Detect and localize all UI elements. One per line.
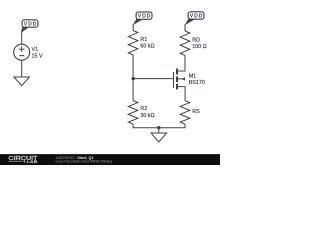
source stub	[178, 86, 186, 88]
wire ground stub	[158, 128, 160, 133]
svg-text:RS: RS	[192, 109, 200, 115]
svg-text:100 Ω: 100 Ω	[192, 44, 207, 50]
channel segment middle	[176, 76, 178, 82]
svg-text:30 kΩ: 30 kΩ	[140, 113, 154, 119]
svg-text:M1: M1	[189, 74, 197, 80]
wire V1 top	[21, 31, 23, 44]
net flag VDD at RD	[185, 12, 204, 25]
resistor RD	[180, 31, 207, 55]
wire RD top	[184, 24, 186, 31]
body stub with arrow	[178, 78, 185, 80]
wire gate	[133, 78, 173, 80]
svg-text:60 kΩ: 60 kΩ	[140, 44, 154, 50]
svg-text:LAB: LAB	[27, 159, 38, 164]
svg-text:V1: V1	[32, 47, 39, 53]
transistor M1 BS170	[174, 69, 205, 90]
drain stub	[178, 70, 186, 72]
voltage source V1	[14, 44, 43, 60]
net flag VDD at R1	[133, 12, 152, 25]
wire V1 bottom	[21, 60, 23, 77]
net flag VDD at V1	[21, 20, 38, 33]
svg-text:R2: R2	[140, 106, 147, 112]
channel segment bottom	[176, 84, 178, 90]
svg-text:RD: RD	[192, 38, 200, 44]
svg-text:VDD: VDD	[24, 22, 37, 28]
svg-text:VDD: VDD	[138, 14, 151, 20]
wire R1 top	[132, 24, 134, 30]
resistor R2	[128, 101, 154, 125]
wire bottom rail	[133, 124, 185, 128]
svg-text:vvvs://circuitlab.com/c45b8e7t: vvvs://circuitlab.com/c45b8e7t5r9yq	[56, 160, 113, 164]
ground (bottom)	[151, 133, 167, 142]
logo rule and LAB	[9, 161, 23, 163]
wire source to RS	[184, 87, 186, 101]
gate bar	[173, 72, 175, 88]
svg-text:15 V: 15 V	[32, 54, 43, 60]
wire RD bottom to drain	[184, 55, 186, 71]
resistor R1	[128, 31, 154, 55]
channel segment top	[176, 69, 178, 75]
svg-text:R1: R1	[140, 37, 147, 43]
ground (left)	[14, 77, 30, 86]
node junction gate	[132, 77, 135, 80]
wire R1 bottom to R2 top	[132, 55, 134, 101]
resistor RS	[180, 101, 200, 125]
footer bar	[0, 154, 220, 165]
svg-text:VDD: VDD	[190, 14, 203, 20]
node junction ground tap	[157, 126, 160, 129]
svg-text:BS170: BS170	[189, 80, 205, 86]
